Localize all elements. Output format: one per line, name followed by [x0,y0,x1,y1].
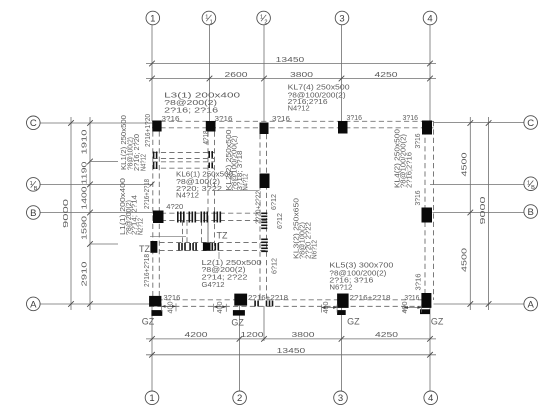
svg-text:400: 400 [402,301,409,313]
svg-text:N4?12: N4?12 [141,154,148,171]
svg-text:3: 3 [339,13,344,24]
grid bubble 1 top [146,11,160,25]
column axis4-B [422,208,433,223]
svg-text:2600: 2600 [225,72,248,79]
grid bubble 3 top [335,11,349,25]
svg-text:2?16; 3?16: 2?16; 3?16 [329,277,373,284]
svg-text:KL7(4) 250x500: KL7(4) 250x500 [288,85,350,92]
svg-text:9000: 9000 [63,199,70,228]
grid bubble 4 bottom [424,391,438,405]
column axis1/1-C [206,121,216,132]
svg-text:400: 400 [217,301,224,313]
svg-text:L3(1) 200x400: L3(1) 200x400 [164,92,240,99]
svg-text:1590: 1590 [82,216,89,240]
svg-text:B: B [34,186,38,192]
GZ column below axis4-A [420,309,430,314]
right overall dim line [488,117,490,310]
svg-text:3?16: 3?16 [272,116,290,123]
column axis4-A [421,293,431,308]
svg-text:3?16: 3?16 [415,190,422,205]
axis 1/1 line [209,25,211,122]
beam L1 axis B [153,212,269,214]
svg-text:3?16: 3?16 [163,295,180,302]
svg-text:13450: 13450 [276,57,305,64]
tick at 1/B on axis1 beam [150,182,155,187]
grid bubble 1/B left [27,178,41,192]
svg-text:B: B [528,207,534,218]
beam hatch axis1 lower joint [153,162,155,169]
beam KL5 axis A [149,299,434,301]
beam hatch axis1 upper joint [153,152,155,159]
grid bubble 1 bottom [145,391,159,405]
leader TZ [150,235,186,237]
svg-text:C: C [30,118,37,129]
svg-text:GZ: GZ [431,317,444,327]
beam hatch A row 1 [254,301,256,307]
svg-text:3?16: 3?16 [347,115,363,122]
svg-text:A: A [30,299,37,310]
svg-text:N4?12: N4?12 [176,193,199,200]
grid bubble A right [524,297,538,311]
svg-text:N2?12: N2?12 [137,218,144,235]
svg-text:4250: 4250 [375,332,398,339]
svg-text:1200: 1200 [241,332,264,339]
grid bubble 2 bottom [233,391,247,405]
svg-text:N6?12: N6?12 [329,284,352,291]
svg-text:1910: 1910 [82,129,89,154]
beam hatch TZ row 3 [212,243,214,251]
svg-text:1400: 1400 [82,186,89,209]
column axis1-B [153,211,164,224]
svg-text:1: 1 [210,19,213,25]
svg-text:1190: 1190 [82,161,89,184]
svg-text:3800: 3800 [290,72,313,79]
leader KL6 [213,190,260,192]
svg-text:3?16: 3?16 [403,115,419,122]
column axis1/2-1/B [260,174,270,189]
beam TZ row [151,242,268,244]
column axis1-TZ [150,241,157,253]
top segment dim line [146,78,436,80]
svg-text:6?12: 6?12 [277,213,284,229]
offset dim 400 at axis1-A [162,305,177,307]
axis 1/B line [40,183,152,185]
beam KL3 axis 1/2 vertical [259,134,261,300]
svg-text:3?16: 3?16 [404,295,419,302]
grid bubble 4 top [423,11,437,25]
svg-text:2?14; 2?22: 2?14; 2?22 [202,275,248,282]
grid bubble C right [524,116,538,130]
svg-text:1: 1 [30,181,33,187]
svg-text:1: 1 [527,180,530,186]
right segment dim line [469,117,471,310]
bottom segment dim line [146,338,436,340]
bottom overall dim line 13450 [146,354,436,356]
svg-text:4250: 4250 [375,72,398,79]
column axis3-C [338,121,348,134]
offset dim 400 at axis4-A [404,307,421,309]
stair column axis1/2 TZ [261,239,268,241]
grid bubble C left [27,116,41,130]
svg-text:2?16; 2?16: 2?16; 2?16 [164,107,218,114]
leader L2 [218,252,220,259]
svg-text:?8@100/200(2): ?8@100/200(2) [329,270,386,277]
svg-text:GZ: GZ [347,317,360,327]
svg-text:6?12: 6?12 [271,194,278,210]
beam KL1 axis 1 vertical [152,123,154,304]
svg-text:?8@200(2): ?8@200(2) [164,100,217,107]
beam hatch B row 2 [189,212,191,223]
svg-text:4: 4 [428,393,433,404]
svg-text:TZ: TZ [217,231,228,241]
top overall dim line 13450 [146,63,436,65]
axis C line [40,122,152,124]
svg-text:4500: 4500 [462,152,469,176]
axis A line [40,303,150,305]
column axis1/2-C [260,123,269,135]
left overall dim line [70,117,72,310]
svg-text:L2(1) 250x500: L2(1) 250x500 [202,260,262,267]
axis 4 line [429,25,431,121]
svg-text:GZ: GZ [231,318,244,328]
beam hatch B row 4 [214,212,216,223]
svg-text:TZ: TZ [139,244,150,254]
svg-text:1: 1 [205,15,208,21]
beam hatch A row 2 [266,301,268,307]
column axis2-A [234,294,247,306]
svg-text:A: A [528,299,535,310]
svg-text:13450: 13450 [277,348,306,355]
beam KL1 upper [153,152,215,154]
svg-text:N4?12: N4?12 [243,173,250,190]
beam hatch B row 1 [177,212,179,223]
offset dim 400 at axis3-A [322,307,338,309]
beam KL4 axis 4 vertical [424,121,426,300]
svg-text:3?16: 3?16 [162,116,180,123]
beam hatch axis1/1 upper joint [208,151,210,158]
grid bubble A left [27,297,41,311]
axis 1/2 line [263,25,265,122]
grid bubble 1/2 top [257,11,271,25]
stair beam left vertical [182,221,184,243]
grid bubble 1/1 top [202,11,216,25]
svg-text:2?16+2?18: 2?16+2?18 [144,179,151,209]
svg-text:4200: 4200 [185,332,208,339]
GZ column below axis2-A [233,310,245,316]
left extension line 1590 [90,243,118,245]
svg-text:3?16: 3?16 [416,273,423,290]
svg-text:4?18: 4?18 [203,130,210,144]
svg-text:3: 3 [338,393,343,404]
svg-text:2910: 2910 [82,261,89,286]
svg-text:2?16+1?20: 2?16+1?20 [145,114,152,147]
stair beam right vertical [201,221,203,243]
left extension line 1910 [90,161,118,163]
svg-text:2?20+2?22: 2?20+2?22 [256,191,263,224]
offset dim 400 at axis2-A [214,306,227,308]
GZ column below axis3-A [337,310,346,315]
svg-text:3800: 3800 [292,332,315,339]
svg-text:2?16+2?18: 2?16+2?18 [144,254,151,287]
svg-text:C: C [527,118,534,129]
beam hatch TZ row 2 [189,243,191,251]
svg-text:?8@100(2): ?8@100(2) [176,179,220,186]
beam hatch TZ row 1 [178,243,180,251]
svg-text:B: B [30,208,36,219]
svg-text:2?16+2?18: 2?16+2?18 [248,295,288,302]
axis 1 line [151,25,153,121]
column axis1-C [152,121,161,132]
svg-text:2: 2 [264,19,267,25]
svg-text:2?16;2?16: 2?16;2?16 [407,152,414,188]
svg-text:1: 1 [150,13,155,24]
svg-text:2: 2 [237,393,242,404]
stair column TZ solid [203,243,211,251]
svg-text:6?12: 6?12 [272,258,279,274]
column axis3-A [337,294,349,308]
svg-text:4?20: 4?20 [166,204,183,211]
svg-text:?8@200(2): ?8@200(2) [202,267,246,274]
svg-text:N4?12: N4?12 [288,106,310,113]
svg-text:4: 4 [427,13,432,24]
GZ column below axis1-A [151,310,162,316]
beam KL6 lower [153,161,215,163]
svg-text:3?16: 3?16 [215,116,233,123]
svg-text:400: 400 [323,301,330,313]
left segment dim line [89,117,91,310]
column axis1-A [149,296,161,307]
svg-text:GZ: GZ [142,317,155,327]
svg-text:9000: 9000 [480,196,487,224]
svg-text:2?16+2?18: 2?16+2?18 [350,295,391,302]
axis 2 line [239,306,241,391]
grid bubble B right [524,205,538,219]
grid bubble 1/B right [524,177,538,191]
beam hatch axis1/1 lower joint [208,163,210,169]
svg-text:KL6(1) 250x500: KL6(1) 250x500 [176,172,233,179]
grid bubble 3 bottom [334,391,348,405]
grid bubble B left [27,206,41,220]
svg-text:1: 1 [149,393,154,404]
svg-text:3?16: 3?16 [415,133,422,148]
svg-text:1: 1 [260,15,263,21]
svg-text:G4?12: G4?12 [202,282,225,289]
axis 3 line [341,25,343,121]
svg-text:B: B [531,185,535,191]
beam KL7 axis C [152,120,434,122]
beam hatch B row 3 [201,212,203,223]
beam KL2 axis 1/1 vertical [207,132,209,251]
svg-text:KL5(3) 300x700: KL5(3) 300x700 [329,262,393,269]
column axis4-C [422,121,432,135]
svg-text:400: 400 [168,301,175,313]
hatch axis1/2 below B [261,213,267,215]
svg-text:4500: 4500 [462,248,469,272]
svg-text:N6?12: N6?12 [312,240,319,259]
axis B line [40,212,153,214]
